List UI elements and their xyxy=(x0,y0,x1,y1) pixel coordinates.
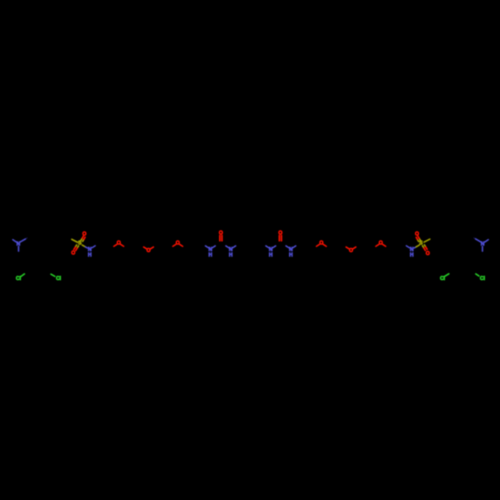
ether oxygen O8 (right PEG 2) xyxy=(346,247,356,254)
svg-text:H: H xyxy=(208,252,212,258)
svg-text:O: O xyxy=(379,241,383,247)
ether oxygen O3 (left PEG 2) xyxy=(144,247,154,254)
oxygen O1b (left S=O lower) xyxy=(71,245,78,257)
urea N3-H (left urea, left NH) xyxy=(205,246,215,259)
urea N4-H (left urea, right NH) xyxy=(226,246,236,259)
svg-text:O: O xyxy=(117,241,121,247)
chlorine Cl2 (left ring, right) xyxy=(51,274,62,282)
urea N5-H (right urea, left NH) xyxy=(266,246,276,259)
svg-text:H: H xyxy=(229,252,233,258)
ether oxygen O2 (left PEG 1) xyxy=(114,241,124,247)
sulfur S1 (left sulfonyl) xyxy=(72,239,82,246)
sulfonamide N2 (left S-NH) xyxy=(82,245,95,258)
amine N1 (left end N(CH3)2) xyxy=(13,238,27,251)
urea carbonyl O6 (right C=O) xyxy=(278,231,282,241)
svg-text:O: O xyxy=(176,241,180,247)
chlorine Cl3 (right ring, left) xyxy=(440,274,449,282)
oxygen O10b (right S=O lower) xyxy=(422,245,429,257)
chlorine Cl1 (left ring, left) xyxy=(16,274,25,282)
urea N6-H (right urea, right NH) xyxy=(286,246,296,259)
svg-text:O: O xyxy=(426,251,430,257)
svg-text:Cl: Cl xyxy=(480,276,486,282)
svg-text:O: O xyxy=(319,241,323,247)
svg-text:H: H xyxy=(88,252,92,258)
oxygen O1a (left S=O upper) xyxy=(81,231,86,241)
ether oxygen O7 (right PEG 1) xyxy=(316,241,326,247)
chlorine Cl4 (right ring, right) xyxy=(476,274,486,282)
svg-text:H: H xyxy=(410,252,414,258)
oxygen O10a (right S=O upper) xyxy=(415,232,421,242)
sulfur S2 (right sulfonyl) xyxy=(419,239,430,246)
svg-text:O: O xyxy=(71,251,75,257)
urea carbonyl O5 (left C=O) xyxy=(219,231,223,241)
sulfonamide N7 (right S-NH) xyxy=(406,245,419,258)
svg-text:H: H xyxy=(289,252,293,258)
ether oxygen O9 (right PEG 3) xyxy=(376,241,386,247)
svg-text:H: H xyxy=(269,252,273,258)
svg-text:Cl: Cl xyxy=(56,276,62,282)
amine N8 (right end N(CH3)2) xyxy=(474,238,488,251)
ether oxygen O4 (left PEG 3) xyxy=(173,241,183,247)
